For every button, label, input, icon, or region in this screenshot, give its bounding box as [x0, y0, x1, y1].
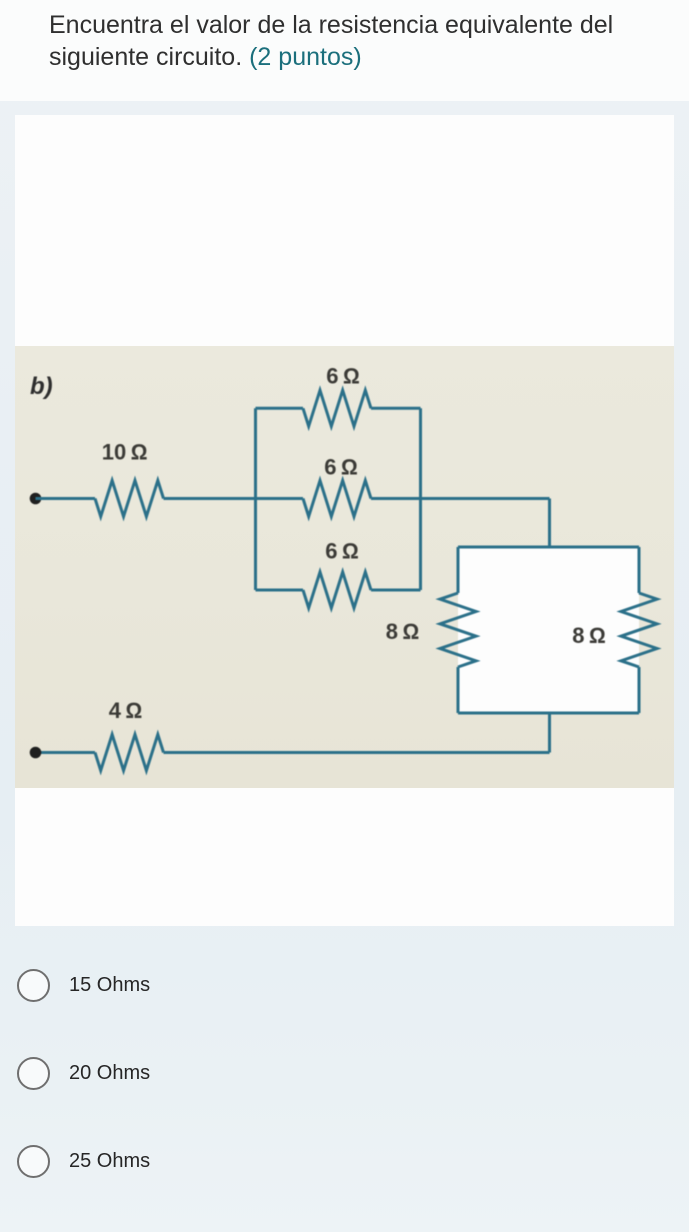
- wire left vertical of 6-ohm parallel box: [254, 408, 257, 590]
- node top terminal: [30, 493, 42, 505]
- node bottom terminal: [30, 747, 42, 759]
- wire bottom main: [164, 751, 550, 754]
- wire middle branch right stub: [371, 497, 421, 500]
- svg-text:6 Ω: 6 Ω: [325, 539, 359, 564]
- resistor 6ohm bottom: [303, 572, 371, 608]
- svg-text:b): b): [30, 373, 53, 400]
- wire left edge stubs of 8-ohm box: [457, 547, 460, 713]
- resistor 6ohm middle: [303, 481, 371, 517]
- wire bottom-left from terminal to R 4ohm: [36, 751, 96, 754]
- wire from R 10ohm to parallel box: [164, 497, 256, 500]
- svg-text:6 Ω: 6 Ω: [326, 364, 360, 389]
- resistor 10ohm: [95, 481, 164, 517]
- wire vertical drop to 8-ohm box: [548, 499, 551, 548]
- svg-text:10 Ω: 10 Ω: [102, 440, 148, 465]
- wire right vertical of 6-ohm parallel box: [419, 408, 422, 590]
- wire bottom branch right stub: [371, 589, 421, 592]
- wire right edge stubs of 8-ohm box: [638, 547, 641, 713]
- svg-text:8 Ω: 8 Ω: [572, 623, 606, 648]
- resistor 4ohm: [95, 735, 164, 771]
- node white box of 8-ohm pair (fill): [458, 547, 639, 713]
- wire top edge of 8-ohm box: [458, 546, 639, 549]
- svg-text:8 Ω: 8 Ω: [386, 619, 420, 644]
- wire bottom edge of 8-ohm box: [458, 712, 639, 715]
- wire bottom branch left stub: [256, 589, 304, 592]
- wire top-left from terminal to R 10ohm: [36, 497, 96, 500]
- resistor 6ohm top: [303, 390, 371, 426]
- wire vertical from 8-ohm box bottom: [548, 713, 551, 753]
- wire top branch left stub: [256, 407, 304, 410]
- resistor 8ohm right: [621, 593, 657, 667]
- svg-text:4 Ω: 4 Ω: [109, 698, 143, 723]
- wire top branch right stub: [371, 407, 421, 410]
- wire main from parallel box to right: [421, 497, 550, 500]
- resistor 8ohm left: [440, 593, 476, 667]
- wire middle branch left stub: [256, 497, 304, 500]
- svg-text:6 Ω: 6 Ω: [324, 455, 358, 480]
